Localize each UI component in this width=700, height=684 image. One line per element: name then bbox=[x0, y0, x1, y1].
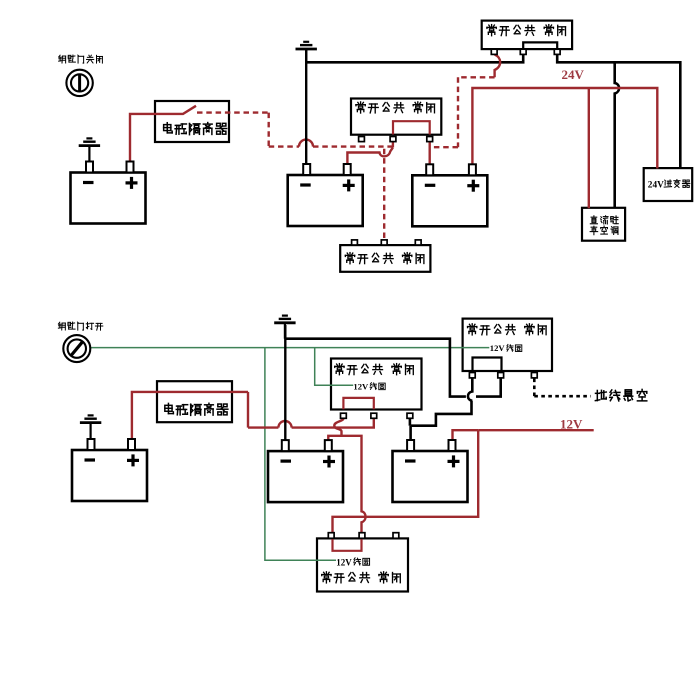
label K4 12V线圈 bbox=[490, 343, 522, 353]
battery isolator U1 bbox=[155, 101, 229, 142]
svg-text:12V: 12V bbox=[353, 381, 369, 391]
svg-text:24V: 24V bbox=[562, 67, 585, 82]
K2 NC-common bracket (red) bbox=[393, 121, 430, 134]
relay K2 box bbox=[351, 99, 441, 135]
K5 NO-common bracket (red) bbox=[343, 398, 373, 409]
label 12V bbox=[560, 417, 583, 432]
wire ground down to B5- (black) bbox=[284, 325, 286, 441]
dashed wire K1 NO to B3- net (red) bbox=[430, 77, 495, 147]
dashed wire isolator to K2 common (red) bbox=[197, 113, 393, 147]
wire K4 NO hook (black) bbox=[468, 378, 472, 401]
K3 terminals bbox=[352, 240, 421, 245]
label K5 常开公共 常闭 bbox=[335, 364, 414, 375]
ground G4 bbox=[274, 316, 295, 339]
wire through isolator closed (red) bbox=[158, 391, 249, 393]
svg-text:12V: 12V bbox=[336, 557, 352, 567]
wire bus to DC aircon (black, hop over 24V) bbox=[615, 62, 619, 208]
battery B1 bbox=[71, 162, 146, 224]
label K3 常开公共 常闭 bbox=[345, 253, 424, 264]
K4 terminals bbox=[469, 373, 537, 378]
label U2 电瓶隔离器 bbox=[165, 403, 228, 415]
wire K4 common down (black) bbox=[476, 378, 501, 396]
label K4 常开公共 常闭 bbox=[468, 324, 547, 335]
wire green branch to K6 coil (green) bbox=[265, 348, 336, 561]
wire K2 common stub (red) bbox=[392, 142, 394, 148]
wire B4+ to isolator (red) bbox=[132, 392, 158, 440]
label K6 12V线圈 bbox=[336, 557, 369, 567]
label K5 12V线圈 bbox=[353, 381, 385, 391]
battery B2 bbox=[288, 164, 363, 226]
label K2 常开公共 常闭 bbox=[356, 102, 435, 113]
wire K6 NO to 12V out (red) bbox=[333, 430, 594, 533]
wire B5+ to K6 common (red) bbox=[328, 436, 365, 533]
wire green branch to K5 coil (green) bbox=[315, 348, 354, 386]
wire K1 NC to inverter (black) bbox=[557, 55, 680, 169]
wire B2+ to K2 common (red) bbox=[347, 148, 393, 164]
relay K3 box bbox=[340, 245, 430, 272]
svg-text:12V: 12V bbox=[560, 417, 583, 432]
ground G3 bbox=[80, 415, 101, 440]
wire ground down to B2- (black) bbox=[305, 50, 307, 165]
battery B6 bbox=[393, 440, 468, 502]
dashed wire to K3 common (red) bbox=[383, 149, 385, 240]
label 24V逆变器 bbox=[648, 179, 690, 190]
24V inverter box bbox=[644, 168, 693, 201]
wire 24V bus (red) bbox=[472, 88, 657, 169]
label K6 常开公共 常闭 bbox=[322, 572, 401, 583]
relay K4 box bbox=[463, 319, 552, 371]
label 地线悬空 bbox=[595, 389, 646, 400]
svg-text:12V: 12V bbox=[490, 343, 506, 353]
battery isolator U2 bbox=[157, 381, 232, 422]
K5 terminals bbox=[341, 413, 413, 418]
dashed wire K4 NC floating (black) bbox=[534, 379, 591, 397]
wire B1+ to isolator (red) bbox=[130, 114, 156, 162]
K6 NO-common bracket (red) bbox=[333, 539, 362, 551]
relay K6 box bbox=[317, 538, 408, 591]
K1 terminals bbox=[491, 49, 560, 54]
wire K1 NO hook (red) bbox=[495, 55, 501, 78]
ground G1 bbox=[79, 138, 100, 161]
label 直流驻 bbox=[590, 216, 618, 224]
K1 NC-common bracket bbox=[523, 42, 557, 49]
wire K5 NO to B5+ (red) bbox=[334, 418, 343, 436]
wire key to K4 coil (green) bbox=[90, 347, 489, 349]
label U1 电瓶隔离器 bbox=[164, 123, 227, 135]
label key-switch-closed bbox=[59, 55, 103, 63]
wire K2 NC to B3- (red) bbox=[429, 142, 431, 166]
label key-switch-open bbox=[58, 322, 102, 330]
K4 NO-common bracket (black) bbox=[473, 358, 502, 371]
K2 terminals bbox=[359, 137, 433, 142]
label K1 常开公共 常闭 bbox=[487, 25, 566, 36]
DC parking aircon box bbox=[582, 208, 625, 241]
label 24V bbox=[562, 67, 585, 82]
wire K4 junction staircase (black) bbox=[410, 401, 472, 440]
relay K1 box bbox=[482, 21, 572, 49]
label 车空调 bbox=[590, 226, 618, 235]
K6 terminals bbox=[328, 533, 399, 539]
wire ground to K4 junction (black) bbox=[285, 339, 466, 397]
wire isolator to K5 common (red) bbox=[248, 392, 374, 428]
wire 24V branch to aircon (red) bbox=[588, 88, 590, 208]
ground G2 bbox=[296, 42, 317, 63]
battery B4 bbox=[72, 439, 147, 501]
relay K5 box bbox=[331, 359, 422, 410]
key switch S1 (closed) bbox=[66, 70, 92, 96]
battery B5 bbox=[268, 440, 343, 502]
switch blade inside U1 (open, red) bbox=[156, 106, 197, 114]
wire ground bus to K1 common (black) bbox=[305, 55, 523, 62]
svg-text:24V: 24V bbox=[648, 181, 664, 191]
key switch S2 (open) bbox=[63, 335, 90, 362]
battery B3 bbox=[412, 164, 487, 226]
